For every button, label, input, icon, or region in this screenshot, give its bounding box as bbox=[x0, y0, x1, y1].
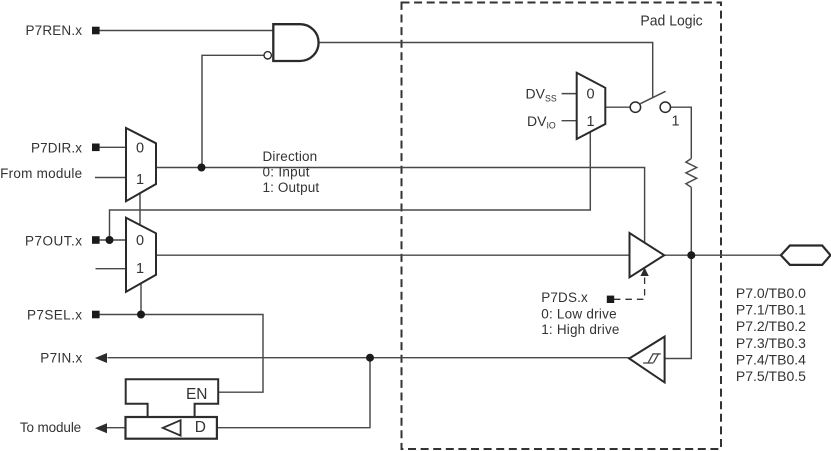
svg-text:P7.4/TB0.4: P7.4/TB0.4 bbox=[736, 351, 806, 367]
svg-text:0: Input: 0: Input bbox=[263, 165, 310, 180]
svg-text:P7.1/TB0.1: P7.1/TB0.1 bbox=[736, 302, 806, 318]
svg-text:P7DIR.x: P7DIR.x bbox=[31, 140, 82, 155]
svg-text:P7DS.x: P7DS.x bbox=[541, 290, 588, 305]
svg-text:From module: From module bbox=[0, 166, 82, 181]
svg-text:EN: EN bbox=[186, 386, 208, 403]
svg-text:1: Output: 1: Output bbox=[263, 180, 320, 195]
svg-text:P7SEL.x: P7SEL.x bbox=[27, 308, 82, 323]
svg-text:P7IN.x: P7IN.x bbox=[40, 351, 82, 366]
svg-text:0: 0 bbox=[136, 140, 144, 156]
svg-text:To module: To module bbox=[20, 420, 81, 435]
svg-text:P7.5/TB0.5: P7.5/TB0.5 bbox=[736, 368, 806, 384]
svg-text:D: D bbox=[195, 419, 206, 436]
svg-text:0: 0 bbox=[586, 87, 594, 103]
svg-text:Pad Logic: Pad Logic bbox=[640, 13, 703, 30]
svg-text:DVSS: DVSS bbox=[526, 86, 557, 104]
svg-text:P7.0/TB0.0: P7.0/TB0.0 bbox=[736, 285, 806, 301]
svg-text:0: Low drive: 0: Low drive bbox=[541, 306, 616, 321]
svg-text:DVIO: DVIO bbox=[527, 113, 556, 131]
svg-text:P7OUT.x: P7OUT.x bbox=[25, 233, 82, 248]
svg-text:0: 0 bbox=[136, 233, 144, 249]
svg-text:P7.3/TB0.3: P7.3/TB0.3 bbox=[736, 335, 806, 351]
svg-text:1: 1 bbox=[586, 114, 594, 130]
svg-text:P7REN.x: P7REN.x bbox=[26, 23, 83, 38]
svg-text:1: High drive: 1: High drive bbox=[541, 322, 619, 337]
svg-text:1: 1 bbox=[136, 172, 144, 188]
svg-text:1: 1 bbox=[136, 261, 144, 277]
svg-text:1: 1 bbox=[671, 114, 679, 130]
svg-text:P7.2/TB0.2: P7.2/TB0.2 bbox=[736, 318, 806, 334]
svg-text:Direction: Direction bbox=[263, 149, 318, 164]
